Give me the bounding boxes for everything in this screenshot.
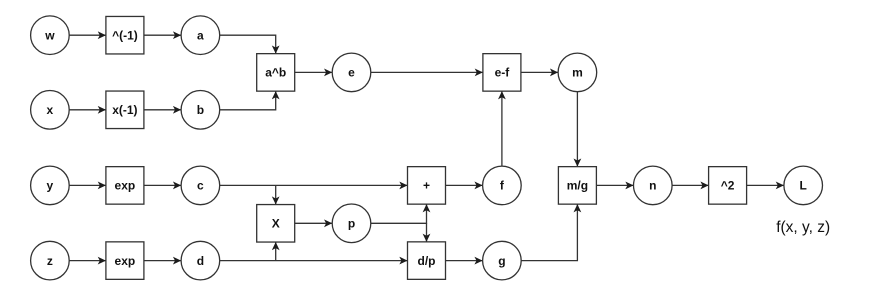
svg-text:^(-1): ^(-1) xyxy=(112,28,138,42)
svg-text:x: x xyxy=(47,103,54,117)
svg-text:w: w xyxy=(44,28,55,42)
svg-text:p: p xyxy=(348,217,355,231)
wire + to f xyxy=(446,184,483,186)
wire f to e-f (up) xyxy=(501,91,503,166)
op box exp (bottom) xyxy=(106,242,144,280)
node a xyxy=(181,16,220,55)
node e xyxy=(332,53,371,92)
wire ^2 to L xyxy=(747,184,784,186)
wire n to ^2 xyxy=(672,184,708,186)
node f xyxy=(483,166,522,205)
node g xyxy=(483,241,522,280)
svg-text:^2: ^2 xyxy=(721,179,735,193)
op box exp (top) xyxy=(106,167,144,205)
svg-text:+: + xyxy=(423,179,430,193)
wire e-f to m xyxy=(521,71,558,73)
wire g to m/g (right then up) xyxy=(521,204,577,260)
wire z to exp xyxy=(69,260,105,262)
wire x(-1) to b xyxy=(144,109,181,111)
svg-text:e-f: e-f xyxy=(495,66,511,80)
op box m/g xyxy=(558,167,596,205)
svg-text:z: z xyxy=(47,254,53,268)
svg-text:n: n xyxy=(649,179,656,193)
svg-text:X: X xyxy=(272,217,280,231)
node n xyxy=(634,166,673,205)
wire e to e-f xyxy=(371,71,483,73)
node x xyxy=(31,91,70,130)
wire a to a^b (right then down) xyxy=(220,35,276,53)
node z xyxy=(31,241,70,280)
op box d/p xyxy=(408,242,446,280)
wire c to + xyxy=(220,184,408,186)
svg-text:L: L xyxy=(800,179,807,193)
op box a^b xyxy=(257,54,295,92)
svg-text:g: g xyxy=(498,254,505,268)
svg-text:e: e xyxy=(348,66,355,80)
svg-text:m/g: m/g xyxy=(567,179,588,193)
wire p to + (right then up) xyxy=(371,204,427,223)
svg-text:a: a xyxy=(197,28,204,42)
svg-text:y: y xyxy=(47,179,54,193)
svg-text:m: m xyxy=(572,66,583,80)
svg-text:x(-1): x(-1) xyxy=(112,103,137,117)
wire X to p xyxy=(295,222,332,224)
svg-text:exp: exp xyxy=(115,179,136,193)
svg-text:f(x, y, z): f(x, y, z) xyxy=(776,219,830,236)
op box ^(-1) xyxy=(106,16,144,54)
wire ^(-1) to a xyxy=(144,34,181,36)
wire d/p to g xyxy=(446,260,483,262)
node d xyxy=(181,241,220,280)
svg-text:c: c xyxy=(197,179,204,193)
op box x(-1) xyxy=(106,91,144,129)
op box ^2 xyxy=(709,167,747,205)
op box plus xyxy=(408,167,446,205)
wire x to x(-1) xyxy=(69,109,105,111)
node L xyxy=(784,166,823,205)
op box e-f xyxy=(483,54,521,92)
wire p to d/p (down) xyxy=(426,223,428,241)
wire m/g to n xyxy=(596,184,633,186)
svg-text:a^b: a^b xyxy=(265,66,286,80)
node w xyxy=(31,16,70,55)
node c xyxy=(181,166,220,205)
node b xyxy=(181,91,220,130)
wire exp to c xyxy=(144,184,181,186)
svg-text:exp: exp xyxy=(115,254,136,268)
svg-text:d: d xyxy=(197,254,204,268)
wire d to d/p xyxy=(220,260,408,262)
wire m to m/g (down) xyxy=(576,92,578,167)
op box X (multiply) xyxy=(257,205,295,243)
wire y to exp xyxy=(69,184,105,186)
wire a^b to e xyxy=(295,71,332,73)
wire branch d to X (up) xyxy=(275,242,277,260)
wire branch c to X (down) xyxy=(275,185,277,204)
wire exp to d xyxy=(144,260,181,262)
wire w to ^(-1) xyxy=(69,34,105,36)
node y xyxy=(31,166,70,205)
svg-text:b: b xyxy=(197,103,204,117)
node p xyxy=(332,204,371,243)
svg-text:d/p: d/p xyxy=(418,254,436,268)
node m xyxy=(558,53,597,92)
wire b to a^b (right then up) xyxy=(220,91,276,109)
